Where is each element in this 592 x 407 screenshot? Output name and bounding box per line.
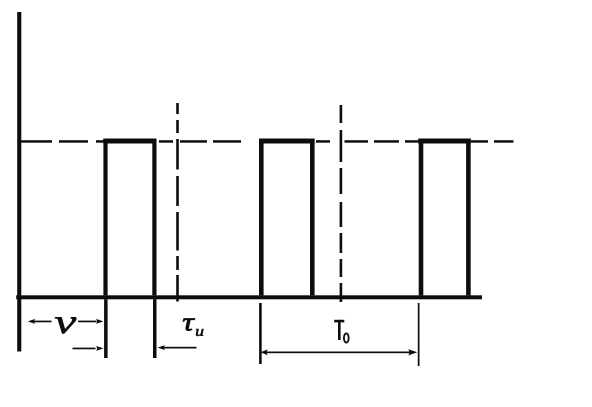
pulse 1 left edge: [103, 139, 107, 296]
x-axis baseline: [16, 295, 482, 299]
y-axis: [17, 12, 21, 352]
dashed vertical line 1: [176, 103, 179, 302]
label nu: [55, 317, 76, 333]
dimension line T0: [261, 349, 418, 355]
label tau: [183, 319, 195, 331]
extension line pulse1 right: [153, 299, 157, 358]
pulse 1 top bar: [103, 139, 156, 144]
dimension arrow nu right: [78, 319, 103, 324]
dashed amplitude level line: [21, 140, 514, 143]
pulse 3 left edge: [419, 139, 424, 296]
pulse 2 left edge: [259, 139, 264, 296]
extension line pulse3 left: [418, 303, 420, 366]
pulse 2 top bar: [259, 139, 315, 144]
extension line pulse1 left: [104, 299, 108, 358]
dashed vertical line 2: [340, 105, 343, 302]
dimension arrow tau (points left to pulse1 right edge): [158, 345, 197, 350]
dimension arrow nu left: [28, 319, 52, 324]
dimension arrow lower right (to pulse1 left edge): [73, 346, 104, 351]
pulse 2 right edge: [310, 139, 315, 296]
label tau subscript u: [196, 329, 203, 336]
pulse 3 top bar: [418, 139, 471, 144]
pulse 3 right edge: [466, 139, 471, 296]
extension line pulse2 left: [259, 303, 262, 364]
label T0: [334, 320, 348, 343]
pulse 1 right edge: [152, 139, 156, 296]
